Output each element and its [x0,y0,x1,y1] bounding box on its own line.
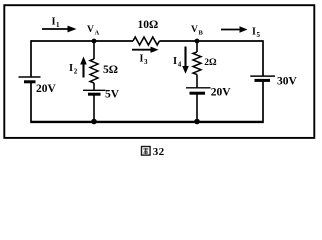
wire left vertical lower [30,82,32,122]
svg-text:I: I [52,17,56,28]
current arrow I1 [42,26,77,33]
wire right vertical lower [262,80,264,121]
wire branch B middle [196,75,198,88]
svg-text:2: 2 [74,68,78,76]
svg-text:I: I [140,54,144,65]
caption figure 32 glyph [142,147,151,156]
wire left vertical upper [30,40,32,77]
svg-text:I: I [252,27,256,38]
label I5 [252,27,261,40]
battery V1 20V long plate [19,76,41,78]
battery V3 20V long plate [186,87,211,89]
caption text 32 [153,146,165,158]
node B junction dot [195,39,200,44]
current arrow I5 [221,26,248,32]
battery V3 20V short plate [190,92,206,95]
junction dot bottom A [91,119,97,125]
label I2 [69,63,78,76]
resistor R3 2ohm [193,52,201,74]
svg-text:3: 3 [144,58,148,66]
svg-text:30V: 30V [277,76,298,88]
battery V2 5V short plate [88,93,101,96]
svg-text:20V: 20V [211,87,232,99]
label V_A [87,25,100,37]
wire branch A lower [93,94,95,121]
svg-text:5Ω: 5Ω [103,64,118,76]
label 10ohm [138,19,159,31]
battery V4 30V short plate [255,79,271,82]
battery V2 5V long plate [83,89,106,91]
wire top-right (R1 to V_B to corner) [159,40,263,42]
svg-text:I: I [69,63,73,74]
svg-text:32: 32 [153,146,165,158]
svg-text:2Ω: 2Ω [204,58,217,68]
junction dot bottom B [194,119,200,125]
label 5V [105,89,120,101]
svg-text:5V: 5V [105,89,120,101]
node A junction dot [92,39,97,44]
label V_B [191,25,204,37]
wire top-left (node to V_A to R1) [31,40,133,42]
battery V4 30V long plate [250,75,275,77]
battery V1 20V short plate [24,80,36,83]
label I4 [173,56,182,69]
label 20V left [36,83,57,95]
svg-text:20V: 20V [36,83,57,95]
current arrow I3 [132,47,159,53]
wire branch B lower [196,93,198,121]
current arrow I4 [182,47,189,74]
wire branch A middle [93,83,95,90]
wire branch A upper [93,41,95,59]
label I1 [52,17,61,30]
svg-text:V: V [87,25,94,35]
svg-text:V: V [191,25,198,35]
svg-text:I: I [173,56,177,67]
current arrow I2 [80,57,87,78]
wire bottom [30,121,264,123]
label 5ohm [103,64,118,76]
svg-text:B: B [199,30,204,37]
resistor R1 10ohm [133,37,159,45]
svg-text:5: 5 [257,31,261,39]
svg-text:10Ω: 10Ω [138,19,159,31]
svg-text:A: A [95,30,100,37]
wire right vertical upper [262,40,264,76]
label 30V [277,76,298,88]
label I3 [140,54,149,67]
svg-text:4: 4 [178,61,182,69]
label 20V right [211,87,232,99]
resistor R2 5ohm [90,59,98,83]
svg-text:1: 1 [56,21,60,29]
wire branch B upper [196,41,198,52]
label 2ohm [204,58,217,68]
